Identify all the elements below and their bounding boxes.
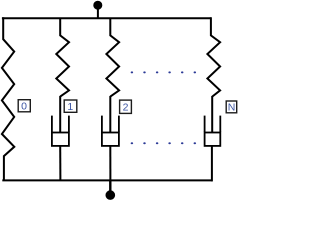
ellipsis dots upper row <box>131 71 196 73</box>
top terminal node A <box>93 1 102 19</box>
wire: R1 to damper D1 <box>59 96 61 133</box>
spring R0 <box>2 17 14 181</box>
spring R1 <box>56 18 69 97</box>
label 2 <box>120 100 132 114</box>
wire: D1 to bottom bus <box>59 146 61 181</box>
svg-text:N: N <box>228 102 236 114</box>
svg-text:1: 1 <box>67 101 73 113</box>
damper D1 <box>52 116 69 146</box>
bottom terminal node B <box>106 180 116 200</box>
wire: R2 to damper D2 <box>109 96 111 133</box>
wire: bottom bus <box>2 179 212 181</box>
svg-text:2: 2 <box>123 102 129 114</box>
wire: DN to bottom bus <box>211 146 213 182</box>
spring R2 <box>106 18 119 97</box>
wire: D2 to bottom bus <box>109 146 111 181</box>
label 0 <box>18 100 30 113</box>
svg-text:0: 0 <box>21 101 27 113</box>
spring RN <box>207 17 220 96</box>
label N <box>226 101 237 114</box>
ellipsis dots lower row <box>131 142 196 144</box>
wire: RN to damper DN <box>211 96 213 133</box>
damper D2 <box>102 116 119 146</box>
damper DN <box>205 116 221 146</box>
label 1 <box>64 100 77 113</box>
wire: top bus <box>2 17 211 19</box>
